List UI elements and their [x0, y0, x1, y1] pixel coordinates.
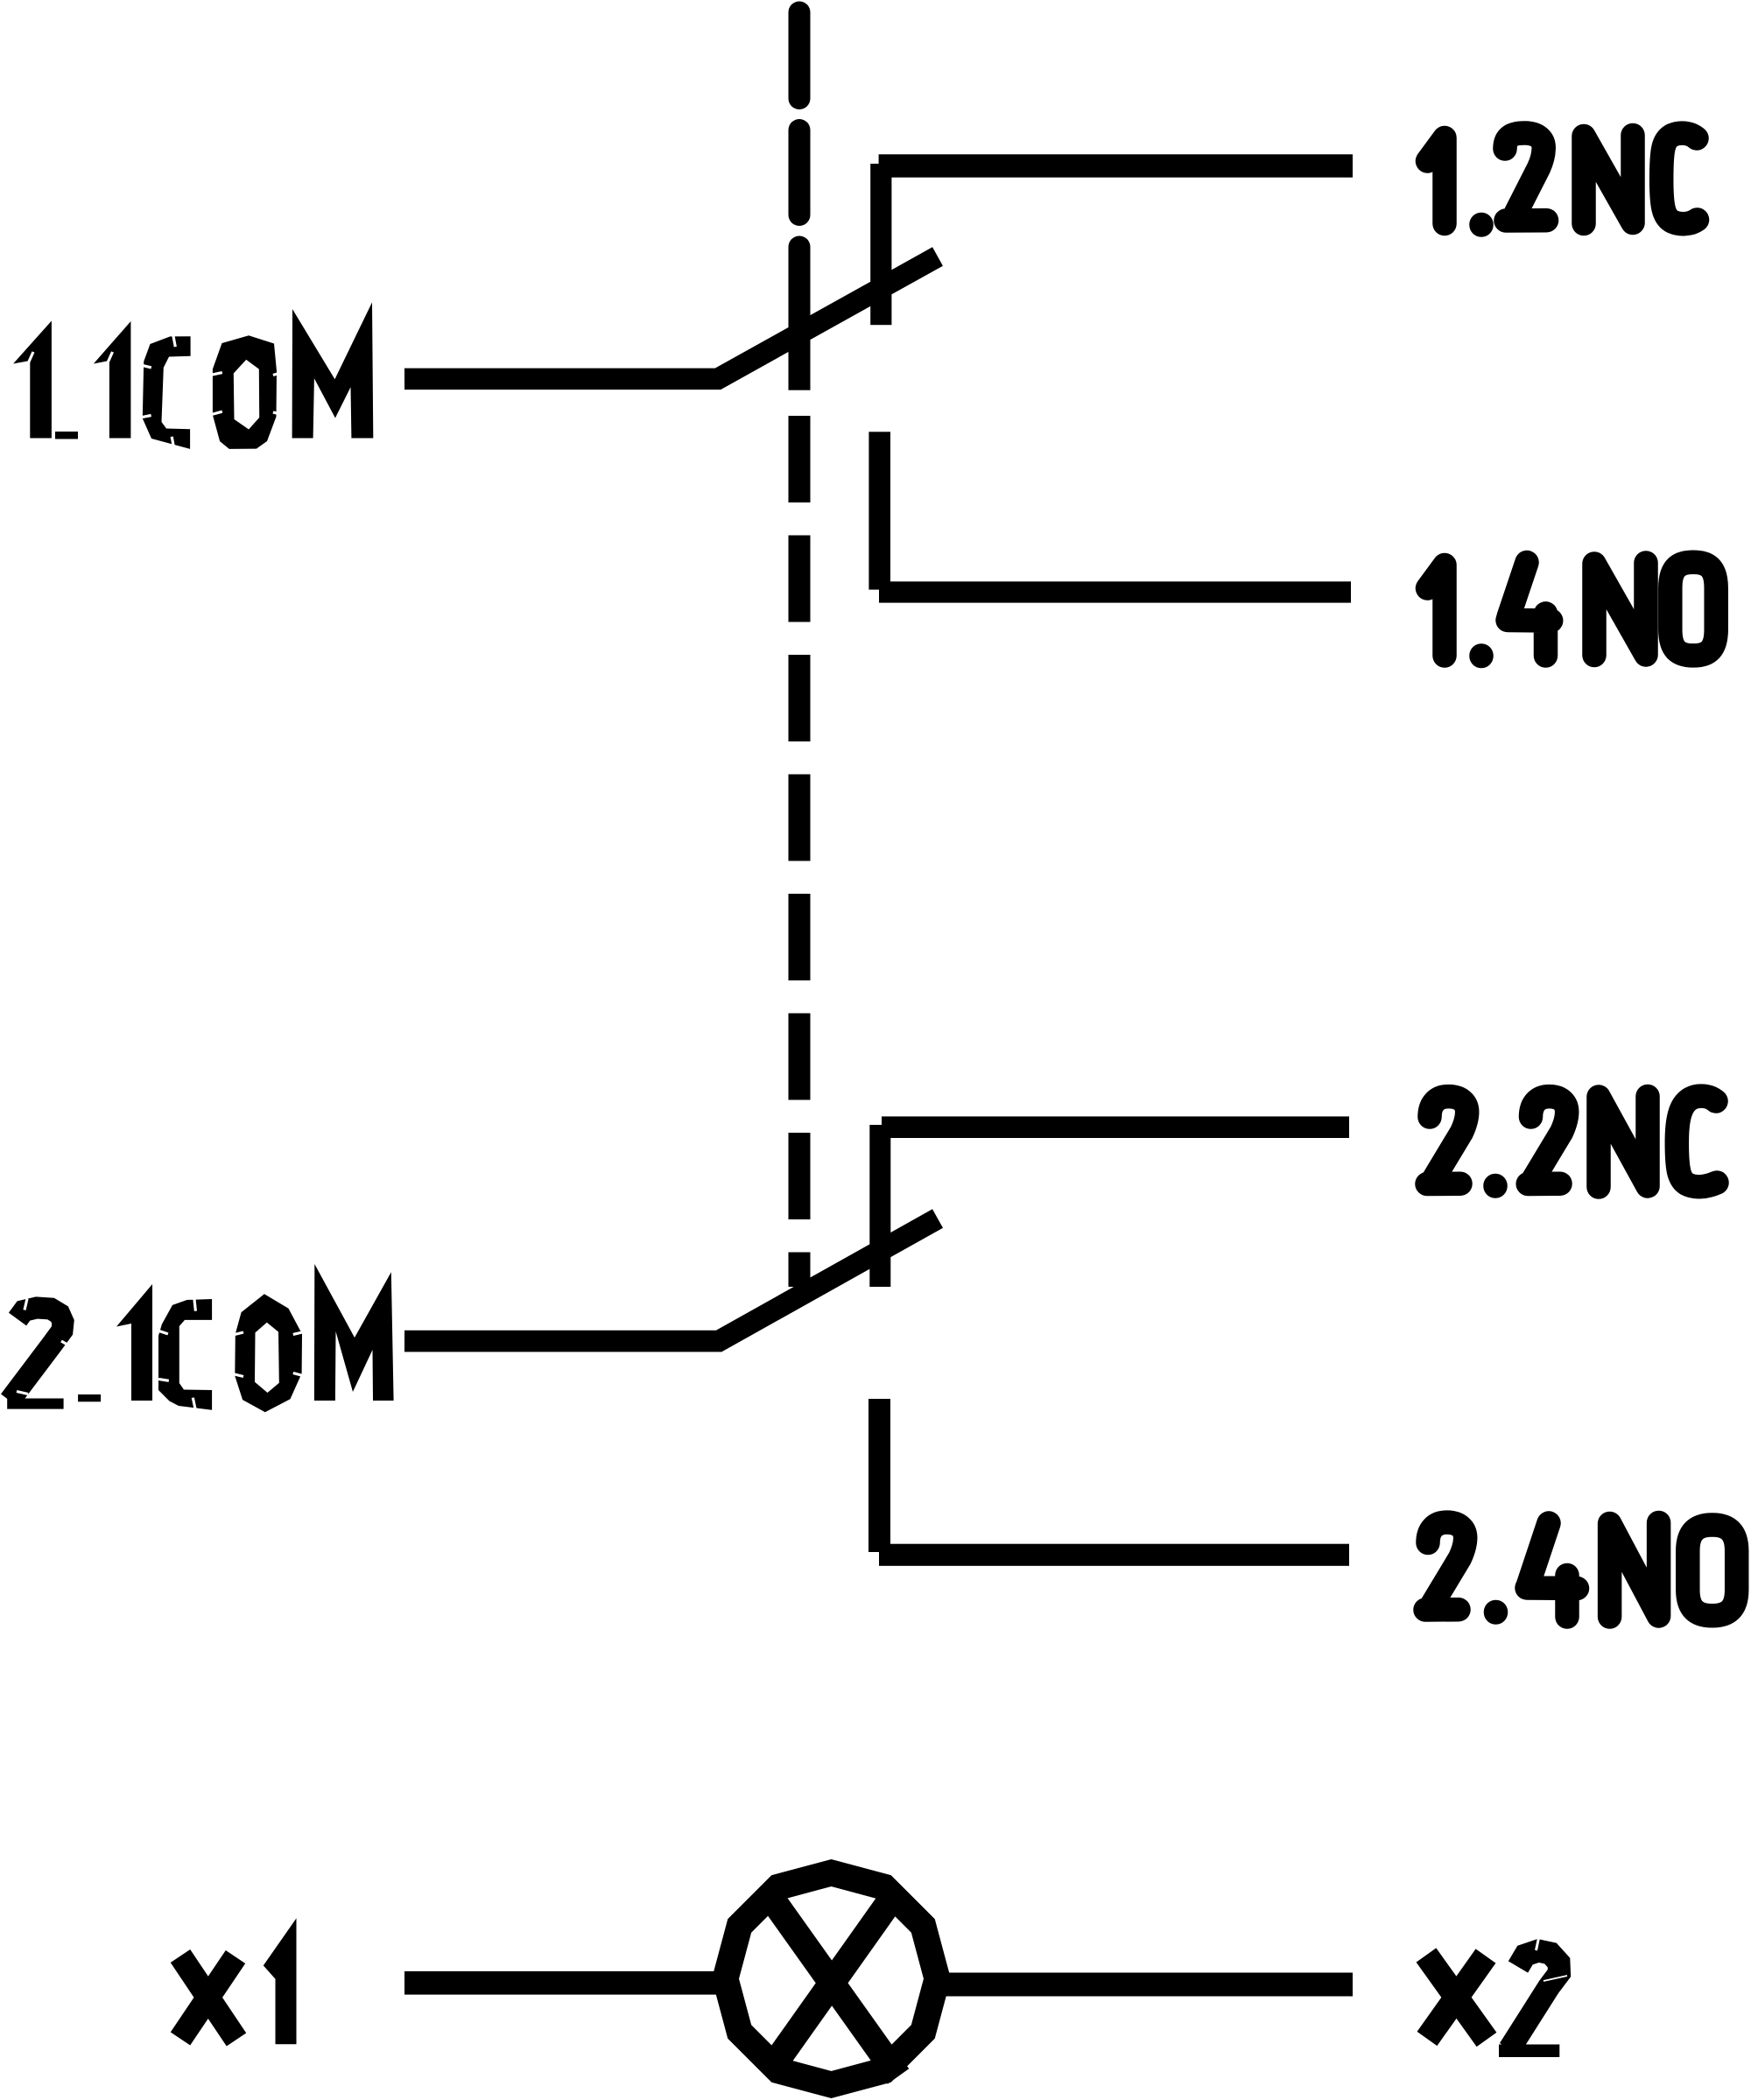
contact 1.2NC fixed contact (L-shape) — [870, 154, 1353, 325]
label 2.2NC — [1427, 1096, 1717, 1187]
wire 2.1COM lead and switch lever pole 2 — [404, 1219, 938, 1341]
contact 2.4NO fixed contact (L-shape) — [868, 1399, 1349, 1566]
label X2 — [1426, 1938, 1567, 2057]
lamp X1-X2 (indicator light, circle with X) — [726, 1873, 938, 2085]
label 1.4NO — [1428, 562, 1717, 656]
contact 2.2NC fixed contact (L-shape) — [869, 1116, 1349, 1287]
label 2.4NO — [1425, 1522, 1737, 1617]
label 2.1COM — [7, 1264, 393, 1412]
label 1.2NC — [1428, 133, 1698, 225]
wire X1 lead — [404, 1971, 718, 1995]
contact 1.4NO fixed contact (L-shape) — [868, 432, 1351, 602]
wire: dashed mechanical actuator link (vertical) — [789, 12, 811, 1287]
wire 1.1COM lead and switch lever pole 1 — [404, 256, 938, 379]
wire X2 lead — [942, 1973, 1353, 1997]
label X1 — [180, 1918, 297, 2044]
label 1.1COM — [13, 302, 373, 449]
